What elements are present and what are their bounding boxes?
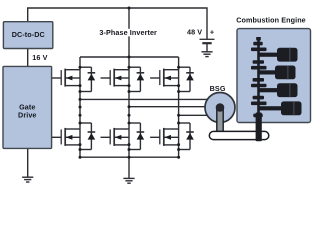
engine connecting rod 2 <box>259 70 279 74</box>
engine crank web 9 <box>253 114 262 118</box>
diode D5 branch top wire <box>179 66 190 68</box>
node leg3 y115.3 <box>177 114 180 117</box>
transistor Q6 source lead <box>164 144 179 146</box>
ground gate drive <box>22 177 33 182</box>
transistor Q1 channel bar <box>64 69 66 87</box>
diode D3 cathode bar <box>137 72 145 74</box>
wire Gate Drive to ground <box>27 148 29 177</box>
diode D4 branch bottom wire <box>129 149 140 151</box>
BSG motor shaft (gray) <box>217 108 223 133</box>
svg-text:16 V: 16 V <box>32 53 47 62</box>
diode D6 cathode bar <box>186 131 194 133</box>
engine piston 2 <box>275 66 296 80</box>
transistor Q2 source lead <box>65 144 80 146</box>
node leg2 y91.5 <box>128 90 131 93</box>
battery BT1 48V positive plate <box>200 38 215 40</box>
transistor Q3 gate lead <box>101 77 111 79</box>
wire inverter supply drop <box>128 8 130 57</box>
label 3-Phase Inverter background <box>98 29 160 37</box>
block DC-to-DC converter <box>3 22 52 49</box>
diode D5 cathode bar <box>186 72 194 74</box>
engine crankshaft lower shaft <box>256 113 262 142</box>
engine connecting rod 3 <box>259 88 281 92</box>
BSG motor hub dot <box>216 103 225 112</box>
wire bottom rail to ground <box>128 157 130 178</box>
svg-text:DC-to-DC: DC-to-DC <box>12 30 45 39</box>
engine crank web 1 <box>253 42 262 46</box>
transistor Q5 body lead <box>164 77 179 79</box>
transistor Q4 drain lead <box>114 128 129 130</box>
engine connecting rod 4 <box>259 106 285 110</box>
battery BT1 48V negative plate <box>202 42 211 44</box>
node leg3 y91.5 <box>177 90 180 93</box>
wire phase U output <box>80 98 208 100</box>
node leg1 y115.2 <box>79 114 82 117</box>
diode D4 branch top wire <box>129 122 140 124</box>
transistor Q5 gate lead <box>150 77 160 79</box>
transistor Q4 body arrow <box>115 135 122 140</box>
transistor Q6 gate lead <box>150 136 160 138</box>
transistor Q4 channel bar <box>113 128 115 146</box>
diode D6 branch top wire <box>179 122 190 124</box>
node leg2 y144.6 <box>128 143 131 146</box>
transistor Q1 gate lead <box>52 77 62 79</box>
node leg2 y149.5 <box>128 148 131 151</box>
transistor Q3 body lead <box>114 77 129 79</box>
transistor Q2 drain lead <box>65 128 80 130</box>
diode D2 triangle <box>88 133 96 140</box>
diode D2 branch top wire <box>80 122 91 124</box>
diode D3 branch top wire <box>129 66 140 68</box>
transistor Q5 body arrow <box>164 76 171 81</box>
svg-text:Drive: Drive <box>18 111 36 120</box>
svg-text:+: + <box>210 27 214 36</box>
engine piston 1 <box>277 48 298 62</box>
diode D3 triangle <box>137 74 145 81</box>
engine piston 4 <box>281 101 302 115</box>
ground inverter <box>123 178 134 183</box>
diode D1 branch top wire <box>80 66 91 68</box>
block Combustion Engine <box>237 29 311 123</box>
diode D6 triangle <box>186 133 194 140</box>
node top rail junction <box>128 56 131 59</box>
belt/pulley bar <box>209 131 268 139</box>
wire inverter leg 1 vertical <box>79 57 81 157</box>
node leg3 y123.0 <box>177 122 180 125</box>
diode D1 triangle <box>88 74 96 81</box>
wire phase W output <box>179 114 208 116</box>
engine crank web 8 <box>251 102 267 106</box>
transistor Q1 body arrow <box>66 76 73 81</box>
transistor Q6 channel bar <box>163 128 165 146</box>
transistor Q4 gate bar <box>109 129 111 144</box>
node leg3 y67.2 <box>177 66 180 69</box>
engine crank web 5 <box>253 78 264 82</box>
node leg1 y157.2 <box>79 156 82 159</box>
transistor Q5 drain lead <box>164 69 179 71</box>
transistor Q2 gate bar <box>60 129 62 144</box>
transistor Q1 drain lead <box>65 69 80 71</box>
diode D3 branch bottom wire <box>129 91 140 93</box>
transistor Q6 body lead <box>164 136 179 138</box>
wire inverter leg 2 vertical <box>128 57 130 157</box>
transistor Q4 gate lead <box>101 136 111 138</box>
diode D1 cathode bar <box>88 72 96 74</box>
node leg1 y85.6 <box>79 84 82 87</box>
transistor Q3 channel bar <box>113 69 115 87</box>
engine crank web 4 <box>251 66 267 70</box>
node leg3 y149.5 <box>177 148 180 151</box>
node leg2 y157.2 <box>128 156 131 159</box>
node leg1 y67.2 <box>79 66 82 69</box>
diode D5 vertical wire <box>189 67 191 91</box>
BSG motor circle <box>205 93 235 123</box>
engine crank web 3 <box>253 60 264 64</box>
diode D2 cathode bar <box>88 131 96 133</box>
diode D1 vertical wire <box>90 67 92 91</box>
transistor Q1 gate bar <box>60 70 62 85</box>
transistor Q6 body arrow <box>164 135 171 140</box>
transistor Q3 drain lead <box>114 69 129 71</box>
wire inverter bottom rail <box>80 156 179 158</box>
transistor Q3 source lead <box>114 85 129 87</box>
node leg2 y115.2 <box>128 114 131 117</box>
diode D1 branch bottom wire <box>80 91 91 93</box>
transistor Q1 source lead <box>65 85 80 87</box>
diode D6 branch bottom wire <box>179 149 190 151</box>
engine crankshaft top nub <box>256 37 261 40</box>
engine piston 3 ring line <box>289 83 291 97</box>
wire phase V output <box>129 106 208 108</box>
engine piston 4 ring line <box>293 101 295 115</box>
wire inverter leg 3 vertical <box>178 57 180 157</box>
diode D3 vertical wire <box>139 67 141 91</box>
node leg1 y99.4 <box>79 98 82 101</box>
transistor Q1 body lead <box>65 77 80 79</box>
transistor Q2 gate lead <box>52 136 62 138</box>
node leg2 y85.6 <box>128 84 131 87</box>
engine crank web 2 <box>251 48 267 52</box>
transistor Q6 drain lead <box>164 128 179 130</box>
transistor Q6 gate bar <box>159 129 161 144</box>
wire battery to ground <box>206 43 208 51</box>
transistor Q4 body lead <box>114 136 129 138</box>
transistor Q2 body arrow <box>66 135 73 140</box>
engine piston 2 ring line <box>287 66 289 80</box>
diode D2 vertical wire <box>90 123 92 150</box>
diode D5 branch bottom wire <box>179 91 190 93</box>
transistor Q5 channel bar <box>163 69 165 87</box>
transistor Q5 gate bar <box>159 70 161 85</box>
node leg1 y149.5 <box>79 148 82 151</box>
transistor Q2 body lead <box>65 136 80 138</box>
node leg1 y123.0 <box>79 122 82 125</box>
node leg1 y107.0 <box>79 106 82 109</box>
engine piston 1 ring line <box>289 48 291 62</box>
diode D4 triangle <box>137 133 145 140</box>
engine crank web 6 <box>251 84 267 88</box>
transistor Q2 channel bar <box>64 128 66 146</box>
svg-text:Combustion Engine: Combustion Engine <box>236 16 306 25</box>
wire inverter top rail <box>80 56 179 58</box>
engine piston 3 <box>277 83 298 97</box>
diode D4 vertical wire <box>139 123 141 150</box>
svg-text:BSG: BSG <box>210 84 226 93</box>
transistor Q5 source lead <box>164 85 179 87</box>
diode D2 branch bottom wire <box>80 149 91 151</box>
node leg3 y157.2 <box>177 156 180 159</box>
node leg2 y67.2 <box>128 66 131 69</box>
transistor Q3 gate bar <box>109 70 111 85</box>
diode D4 cathode bar <box>137 131 145 133</box>
diode D6 vertical wire <box>189 123 191 150</box>
node top bus junction <box>128 7 131 10</box>
wire DC-to-DC to Gate Drive (16V) <box>27 49 29 67</box>
node leg2 y123.0 <box>128 122 131 125</box>
node leg1 y91.5 <box>79 90 82 93</box>
node leg3 y144.6 <box>177 143 180 146</box>
engine crank web 7 <box>253 96 264 100</box>
svg-text:3-Phase Inverter: 3-Phase Inverter <box>99 28 157 37</box>
node leg2 y106.7 <box>128 105 131 108</box>
transistor Q3 body arrow <box>115 76 122 81</box>
transistor Q4 source lead <box>114 144 129 146</box>
engine connecting rod 1 <box>259 53 281 57</box>
svg-text:48 V: 48 V <box>187 27 202 36</box>
block Gate Drive <box>3 66 52 148</box>
wire 48V top bus <box>28 8 207 39</box>
diode D5 triangle <box>186 74 194 81</box>
node leg3 y85.6 <box>177 84 180 87</box>
ground battery <box>201 52 212 57</box>
engine crankshaft main shaft <box>257 39 260 115</box>
node leg1 y144.6 <box>79 143 82 146</box>
